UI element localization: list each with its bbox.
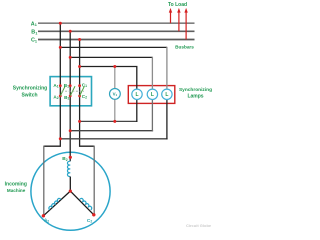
svg-text:Incoming: Incoming	[5, 182, 27, 188]
arrow to load from A1	[169, 8, 172, 23]
svg-text:B1: B1	[64, 83, 69, 89]
svg-text:Lamps: Lamps	[187, 93, 203, 99]
svg-text:Synchronizing: Synchronizing	[179, 87, 212, 93]
svg-text:Machine: Machine	[7, 188, 26, 193]
junction dot voltmeter top	[113, 65, 116, 68]
coil A phase	[48, 198, 61, 210]
lamp L3	[162, 89, 172, 99]
svg-text:A2: A2	[53, 94, 58, 100]
junction dot voltmeter bottom	[113, 120, 116, 123]
svg-text:To Load: To Load	[168, 2, 187, 8]
wire machine tap C	[80, 120, 138, 122]
junction dot busbar B	[69, 30, 72, 33]
switch blade B	[70, 86, 75, 96]
wire star to C2 coil	[70, 191, 94, 215]
svg-text:B2: B2	[62, 156, 67, 162]
svg-text:C2: C2	[82, 94, 87, 100]
svg-text:Synchronizing: Synchronizing	[13, 86, 47, 92]
wire tap C to lamp1	[80, 67, 137, 90]
junction dot machine tap A	[59, 137, 62, 140]
svg-text:C1: C1	[82, 82, 87, 88]
wire machine tap B	[70, 130, 153, 132]
wire phase C vertical + jog	[80, 40, 95, 147]
arrow to load from B1	[177, 8, 180, 31]
svg-text:L: L	[135, 92, 138, 98]
junction dot tap A	[59, 46, 62, 49]
wire voltmeter bottom feed	[114, 99, 116, 122]
arrow to load from C1	[184, 8, 187, 40]
synchronizing switch box	[50, 77, 91, 106]
junction dot machine tap C	[78, 120, 81, 123]
svg-text:A2: A2	[44, 218, 49, 224]
wire phase C machine feed	[93, 146, 95, 215]
lamp L1	[132, 89, 142, 99]
wire phase B vertical	[69, 31, 71, 161]
switch linkage dashed	[62, 90, 85, 92]
busbar C1	[38, 39, 195, 41]
wire machine tap A	[60, 138, 167, 140]
svg-text:Busbars: Busbars	[175, 45, 194, 50]
incoming machine circle	[31, 152, 110, 230]
junction dot tap B	[69, 56, 72, 59]
wire lamp1 bottom	[136, 99, 138, 122]
wire phase A machine feed	[43, 146, 45, 216]
star point dot	[69, 190, 72, 193]
switch contact dots	[59, 84, 81, 97]
wire star to A2 coil	[43, 191, 70, 216]
svg-text:V1: V1	[113, 92, 118, 98]
svg-text:Switch: Switch	[21, 92, 37, 98]
svg-text:B1: B1	[31, 30, 37, 36]
wire B coil to star point	[69, 177, 71, 192]
switch blade C	[80, 86, 85, 96]
terminal A2 dot	[42, 214, 45, 217]
coil C phase	[80, 198, 93, 210]
junction dot machine tap B	[69, 129, 72, 132]
coil B phase	[67, 161, 70, 176]
svg-text:Circuit Globe: Circuit Globe	[186, 223, 212, 228]
voltmeter V1	[110, 89, 121, 100]
synchronizing lamps box	[128, 86, 175, 104]
svg-text:B2: B2	[64, 95, 69, 101]
svg-text:L: L	[165, 92, 168, 98]
svg-text:A1: A1	[53, 83, 58, 89]
wire lamp3 bottom	[166, 99, 168, 139]
node B2 dot	[69, 156, 72, 159]
svg-text:L: L	[151, 92, 154, 98]
svg-text:A1: A1	[31, 21, 37, 27]
wire lamp2 bottom	[151, 99, 153, 131]
junction dot tap C	[78, 65, 81, 68]
wire phase A vertical + jog	[44, 23, 61, 146]
wire voltmeter top feed	[114, 67, 116, 90]
junction dot busbar A	[59, 22, 62, 25]
busbar A1	[38, 22, 195, 24]
terminal C2 dot	[92, 213, 95, 216]
svg-text:C1: C1	[31, 38, 37, 44]
junction dot busbar C	[78, 38, 81, 41]
wire tap B to lamp2	[70, 56, 152, 58]
lamp L2	[147, 89, 157, 99]
switch blade A	[60, 86, 65, 96]
busbar B1	[38, 30, 195, 32]
svg-text:C2: C2	[87, 218, 92, 224]
wire tap A to lamp3	[60, 46, 167, 48]
